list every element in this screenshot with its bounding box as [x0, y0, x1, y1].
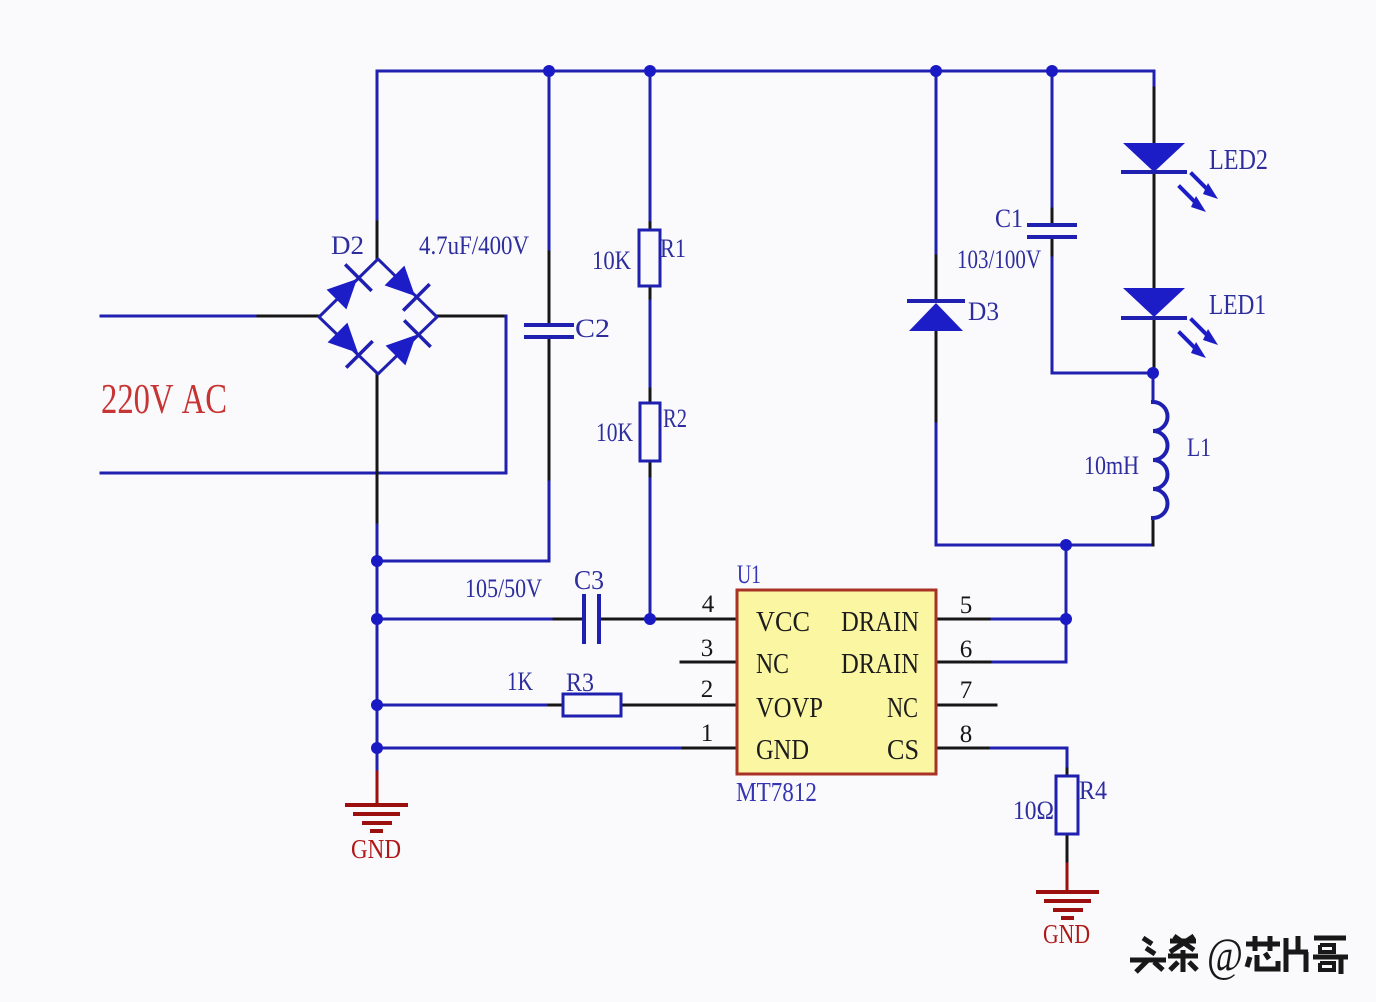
wire R1-R2 blue — [649, 301, 652, 389]
resistor R3 — [563, 694, 621, 716]
svg-text:5: 5 — [960, 592, 973, 619]
node dot LED-L1 — [1147, 367, 1159, 379]
node dot pin4 — [644, 613, 656, 625]
wire R2 to pin4 node blue — [649, 479, 652, 619]
wire C1 bottom pin black — [1051, 238, 1054, 258]
wire node vertical blue — [1065, 545, 1068, 662]
node dot rail pin1 — [371, 742, 383, 754]
svg-text:NC: NC — [756, 648, 789, 680]
svg-text:MT7812: MT7812 — [736, 777, 817, 807]
svg-text:VOVP: VOVP — [756, 692, 823, 724]
svg-text:10K: 10K — [596, 418, 633, 447]
capacitor C2 — [526, 325, 572, 337]
wire AC bottom with corner up — [101, 316, 506, 473]
wire C2 top blue — [548, 71, 551, 252]
node dot bottom bus — [1060, 539, 1072, 551]
wire bridge right pin black — [438, 315, 506, 318]
bridge diode upper-left — [324, 266, 370, 312]
svg-text:10Ω: 10Ω — [1013, 796, 1054, 825]
wire C3 left pin black — [551, 618, 584, 621]
bridge diode upper-right — [382, 263, 428, 309]
wire left gnd stub red — [376, 772, 379, 805]
diode D3 — [909, 301, 963, 331]
wire pin6 to node blue — [993, 661, 1066, 664]
node dot pin5 — [1060, 613, 1072, 625]
wire C2 bottom to rail — [377, 482, 549, 561]
svg-text:R2: R2 — [663, 404, 687, 433]
wire bridge top pin (black) — [376, 222, 379, 258]
wire bridge bottom pin black down — [376, 374, 379, 525]
wire left rail blue — [376, 525, 379, 772]
watermark toutiao at — [1130, 936, 1198, 972]
ground symbol right — [1038, 892, 1097, 918]
node dot top C1 — [1046, 65, 1058, 77]
svg-text:D2: D2 — [331, 231, 364, 260]
wire pin4 node to IC black — [599, 618, 737, 621]
svg-text:GND: GND — [351, 834, 401, 864]
wire pin6 lead black — [937, 661, 993, 664]
wire rail to pin1 blue — [377, 747, 683, 750]
node dot rail C2 — [371, 555, 383, 567]
wire L1 bottom black — [1152, 518, 1155, 545]
wire R4 bottom pin black — [1066, 834, 1069, 864]
wire R1 col top blue — [649, 71, 652, 223]
svg-text:220V AC: 220V AC — [101, 377, 227, 423]
svg-text:VCC: VCC — [756, 606, 810, 638]
wire R1 top pin black — [649, 223, 652, 230]
svg-text:GND: GND — [1043, 919, 1090, 949]
LED1 — [1123, 288, 1185, 318]
svg-text:LED1: LED1 — [1209, 290, 1266, 321]
wire C1 top pin black — [1051, 209, 1054, 224]
svg-text:CS: CS — [887, 734, 919, 766]
svg-text:C1: C1 — [995, 204, 1023, 233]
svg-text:DRAIN: DRAIN — [841, 606, 919, 638]
resistor R2 — [640, 403, 660, 461]
wire C1 col top blue — [1051, 71, 1054, 209]
wire pin8 lead black — [937, 747, 991, 750]
wire AC top lead blue — [101, 315, 258, 318]
svg-text:6: 6 — [960, 636, 973, 663]
wire pin5 to node blue — [992, 618, 1066, 621]
svg-text:3: 3 — [701, 635, 714, 662]
svg-text:@: @ — [1207, 929, 1243, 982]
svg-text:10mH: 10mH — [1084, 451, 1139, 480]
wire LED2-LED1 black — [1153, 173, 1156, 288]
wire top bus horizontal — [377, 71, 1154, 222]
wire C2 top pin black — [548, 252, 551, 324]
LED1 arrows — [1180, 320, 1218, 358]
wire pin7 stub black — [937, 704, 996, 707]
inductor L1 — [1153, 402, 1168, 518]
svg-text:C3: C3 — [574, 565, 604, 595]
wire pin8 to R4 blue — [991, 748, 1067, 769]
node dot rail R3 — [371, 699, 383, 711]
wire pin5 lead black — [937, 618, 992, 621]
wire R4 top pin black — [1066, 769, 1069, 776]
watermark xin pian ge — [1246, 936, 1348, 974]
resistor R1 — [639, 230, 660, 286]
wire D3 to bottom bus blue — [936, 424, 1153, 545]
wire D3 bottom pin black — [935, 331, 938, 424]
resistor R4 — [1056, 776, 1078, 834]
wire R2 bottom pin black — [649, 461, 652, 479]
svg-text:10K: 10K — [592, 246, 631, 275]
svg-text:U1: U1 — [737, 560, 761, 589]
bridge diode lower-right — [383, 322, 429, 368]
svg-text:DRAIN: DRAIN — [841, 648, 919, 680]
capacitor C3 — [584, 596, 599, 642]
wire pin3 stub black — [681, 661, 737, 664]
wire node to L1 blue — [1152, 373, 1155, 402]
svg-text:105/50V: 105/50V — [465, 574, 542, 603]
wire bridge left pin black — [258, 315, 318, 318]
IC U1 MT7812 body — [737, 590, 936, 774]
svg-text:R4: R4 — [1079, 776, 1107, 805]
bridge rectifier D2 diamond — [319, 259, 437, 374]
svg-text:1K: 1K — [507, 667, 533, 696]
wire D3 top pin black — [935, 256, 938, 301]
wire LED1 to node black — [1153, 318, 1156, 373]
svg-text:L1: L1 — [1187, 433, 1211, 462]
wire C1 bottom to LED node — [1052, 258, 1153, 373]
capacitor C1 — [1029, 225, 1075, 237]
svg-text:C2: C2 — [575, 314, 610, 343]
svg-text:103/100V: 103/100V — [957, 245, 1041, 274]
node dot rail C3 — [371, 613, 383, 625]
svg-text:1: 1 — [701, 720, 714, 747]
LED2 — [1123, 143, 1185, 172]
svg-text:R3: R3 — [566, 668, 594, 697]
svg-text:2: 2 — [701, 676, 714, 703]
wire pin1 lead black — [683, 747, 737, 750]
wire R4 gnd stub red — [1066, 864, 1069, 891]
svg-text:7: 7 — [960, 677, 973, 704]
wire rail to R3 blue — [377, 704, 549, 707]
wire R3 left pin black — [549, 704, 563, 707]
wire D3 col top blue — [935, 71, 938, 256]
wire LED chain corner blue — [1153, 71, 1156, 88]
wire R2 top pin black — [649, 389, 652, 403]
svg-text:D3: D3 — [968, 297, 999, 326]
svg-text:R1: R1 — [660, 234, 686, 263]
svg-text:LED2: LED2 — [1209, 145, 1268, 176]
svg-text:4.7uF/400V: 4.7uF/400V — [419, 231, 529, 260]
node dot top R1 — [644, 65, 656, 77]
wire R3 to pin2 black — [621, 704, 737, 707]
svg-text:4: 4 — [702, 591, 715, 618]
wire C2 bottom pin black — [548, 338, 551, 482]
wire LED2 top pin black — [1153, 88, 1156, 143]
LED2 arrows — [1180, 174, 1218, 212]
wire rail to C3 blue — [377, 618, 551, 621]
node dot top C2 — [543, 65, 555, 77]
node dot top D3 — [930, 65, 942, 77]
ground symbol left — [347, 805, 406, 831]
svg-text:8: 8 — [960, 721, 973, 748]
wire R1 bottom pin black — [649, 286, 652, 301]
svg-text:NC: NC — [887, 692, 918, 724]
svg-text:GND: GND — [756, 734, 809, 766]
bridge diode lower-left — [325, 320, 371, 366]
